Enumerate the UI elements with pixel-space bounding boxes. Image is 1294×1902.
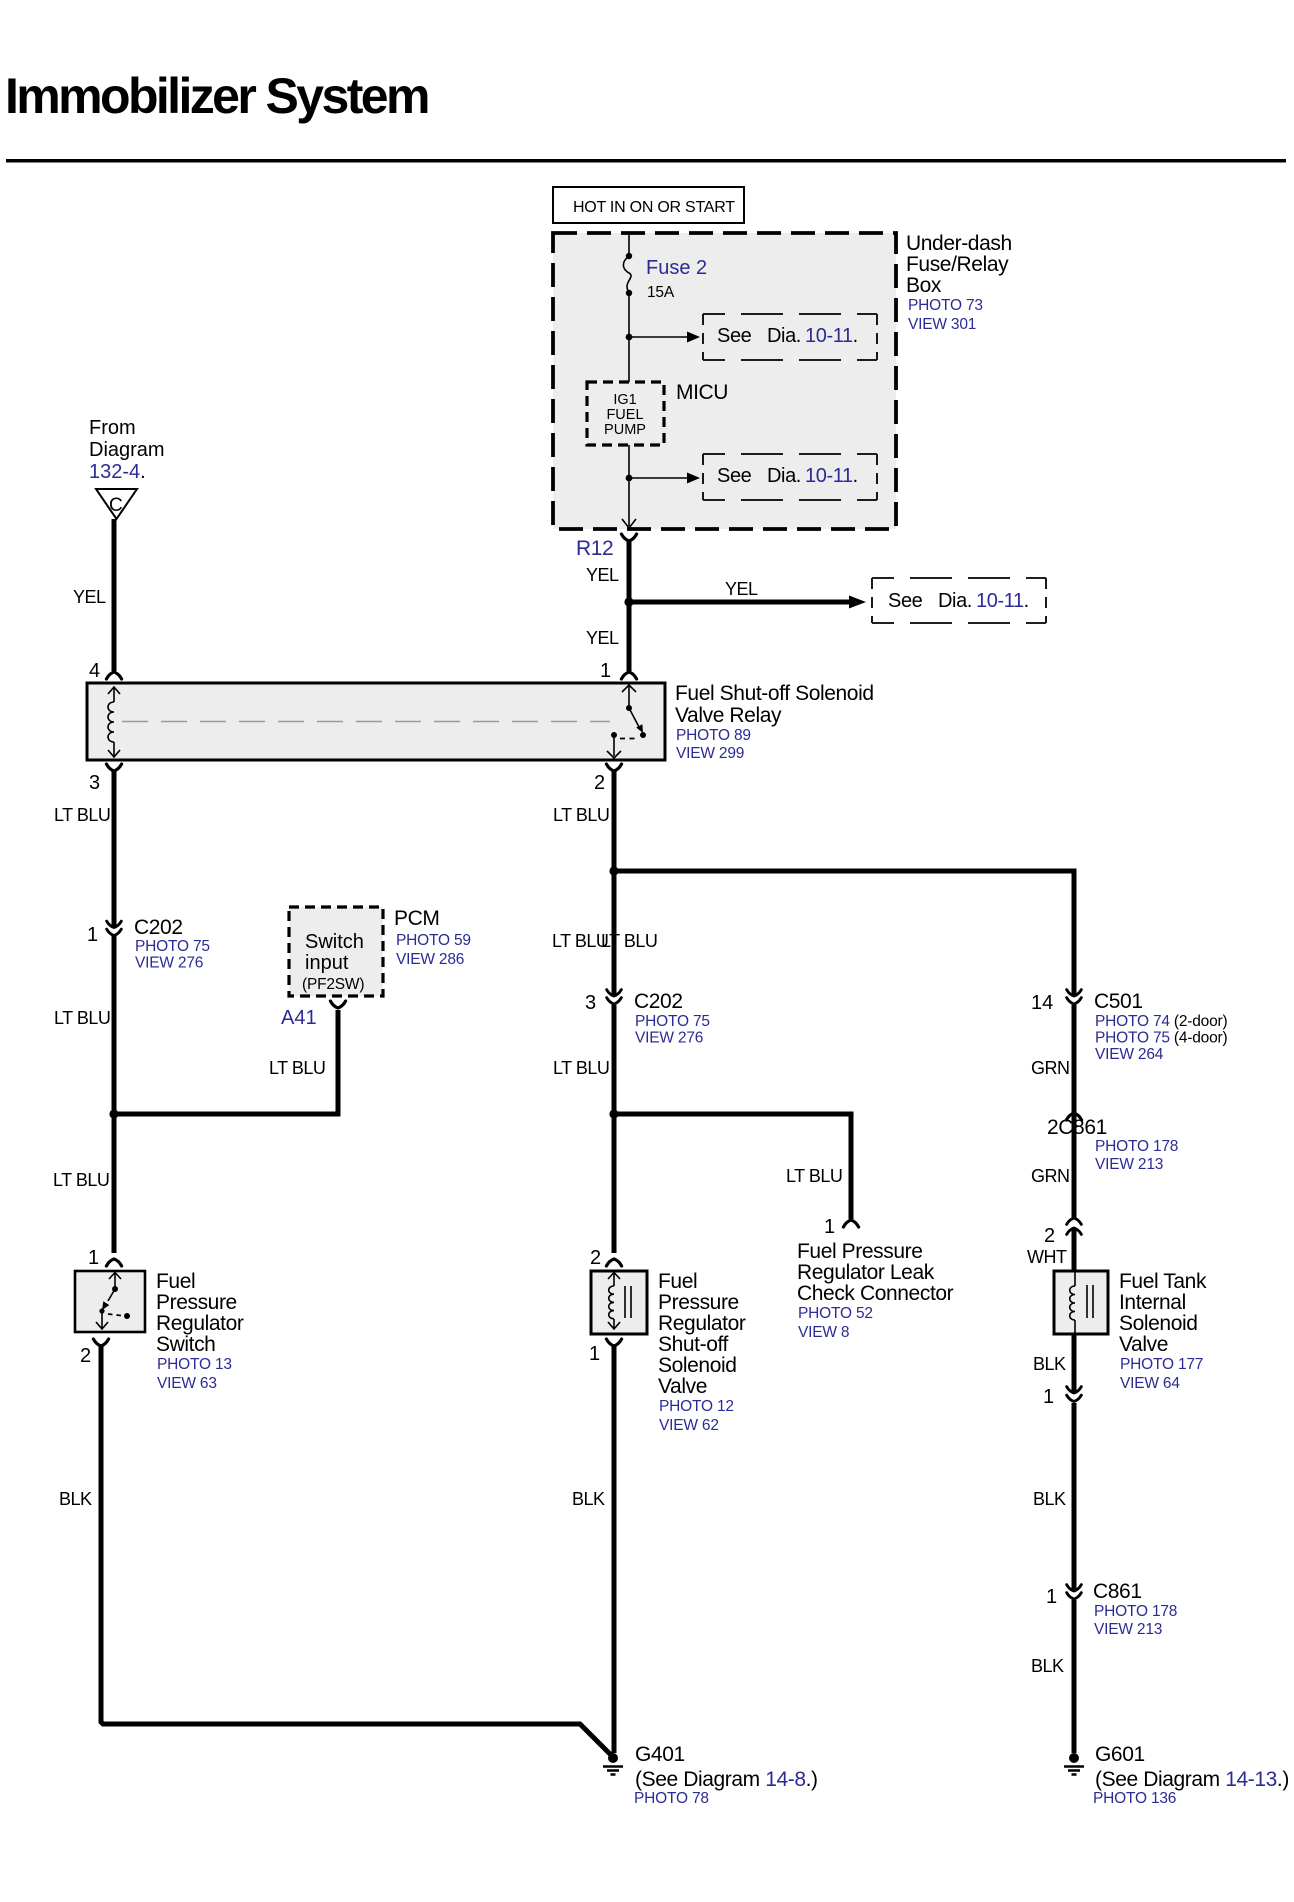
arrow to See Dia (upper) [629, 332, 700, 343]
svg-text:G401: G401 [635, 1743, 685, 1766]
svg-text:VIEW 276: VIEW 276 [635, 1030, 703, 1047]
svg-text:2: 2 [80, 1345, 91, 1367]
relay pin 4 terminal [106, 672, 121, 679]
svg-text:15A: 15A [647, 284, 675, 301]
svg-text:Fuel Pressure: Fuel Pressure [797, 1240, 923, 1263]
svg-text:Shut-off: Shut-off [658, 1333, 729, 1356]
svg-text:2: 2 [594, 772, 605, 794]
svg-text:Fuel: Fuel [658, 1270, 697, 1293]
svg-text:1: 1 [1043, 1386, 1054, 1408]
ground G401 [603, 1753, 623, 1775]
wire relay pin3 to C202 [112, 771, 117, 926]
svg-text:14: 14 [1031, 992, 1053, 1014]
svg-text:GRN: GRN [1031, 1058, 1070, 1078]
wire C501 to tank valve [1072, 1005, 1077, 1218]
connector C861 [1067, 1585, 1082, 1599]
svg-text:PHOTO 75 (4-door): PHOTO 75 (4-door) [1095, 1030, 1227, 1047]
svg-text:See: See [717, 465, 752, 487]
svg-text:BLK: BLK [59, 1489, 92, 1509]
relay coil [108, 687, 120, 757]
svg-text:Box: Box [906, 274, 942, 297]
svg-text:1: 1 [600, 660, 611, 682]
svg-text:IG1: IG1 [613, 392, 636, 408]
relay pin 3 terminal [106, 764, 121, 771]
svg-text:HOT IN ON OR START: HOT IN ON OR START [573, 199, 735, 216]
wire tank valve to pin1 connector [1072, 1334, 1077, 1392]
svg-text:PHOTO 178: PHOTO 178 [1095, 1138, 1178, 1155]
node junction middle [609, 1109, 618, 1118]
svg-text:Fuse/Relay: Fuse/Relay [906, 253, 1009, 276]
svg-text:(See Diagram 14-8.): (See Diagram 14-8.) [635, 1768, 818, 1791]
switch S1 contact [96, 1273, 130, 1330]
svg-text:PHOTO 59: PHOTO 59 [396, 932, 471, 949]
wire R12 to relay pin 1 [627, 541, 632, 671]
svg-text:G601: G601 [1095, 1743, 1145, 1766]
node junction to right column [609, 866, 618, 875]
svg-text:PHOTO 178: PHOTO 178 [1094, 1603, 1177, 1620]
label Under-dash Fuse/Relay Box [906, 232, 1012, 333]
svg-text:Internal: Internal [1119, 1291, 1186, 1314]
solenoid pin 2 terminal [606, 1259, 621, 1266]
wire junction to C501 column [614, 871, 1074, 995]
svg-text:YEL: YEL [725, 579, 758, 599]
svg-text:1: 1 [1046, 1586, 1057, 1608]
svg-text:Diagram: Diagram [89, 439, 165, 461]
svg-text:VIEW 301: VIEW 301 [908, 316, 976, 333]
svg-text:VIEW 299: VIEW 299 [676, 745, 744, 762]
tank valve coil element [1070, 1272, 1093, 1333]
svg-text:C: C [109, 495, 123, 516]
svg-text:LT BLU: LT BLU [553, 1058, 609, 1078]
svg-text:GRN: GRN [1031, 1166, 1070, 1186]
svg-text:Dia.: Dia. [767, 465, 801, 487]
svg-text:input: input [305, 952, 349, 974]
svg-text:C202: C202 [134, 916, 183, 939]
svg-text:VIEW 62: VIEW 62 [659, 1417, 719, 1434]
svg-text:YEL: YEL [586, 565, 619, 585]
svg-text:WHT: WHT [1027, 1247, 1067, 1267]
connector 2C861 chevron [1066, 1113, 1081, 1120]
svg-text:C202: C202 [634, 990, 683, 1013]
wire C861 to ground [1072, 1600, 1077, 1753]
svg-text:FUEL: FUEL [606, 407, 643, 423]
wire relay pin2 down [612, 771, 617, 995]
label G601 [1093, 1743, 1289, 1807]
label Fuel Pressure Regulator Shut-off Solenoid Valve [658, 1270, 746, 1434]
svg-text:PHOTO 78: PHOTO 78 [634, 1790, 709, 1807]
svg-text:PHOTO 136: PHOTO 136 [1093, 1790, 1176, 1807]
svg-text:R12: R12 [576, 537, 613, 560]
label Fuel Tank Internal Solenoid Valve [1119, 1270, 1207, 1392]
label C861 [1093, 1580, 1177, 1638]
svg-text:PHOTO 74 (2-door): PHOTO 74 (2-door) [1095, 1013, 1227, 1030]
svg-text:C501: C501 [1094, 990, 1143, 1013]
wire fuse to node [628, 293, 630, 382]
svg-text:Solenoid: Solenoid [658, 1354, 737, 1377]
svg-text:Regulator Leak: Regulator Leak [797, 1261, 935, 1284]
switch pin 2 terminal [93, 1339, 108, 1346]
svg-text:PHOTO 177: PHOTO 177 [1120, 1356, 1203, 1373]
svg-text:Pressure: Pressure [156, 1291, 237, 1314]
wire solenoid to ground [612, 1346, 617, 1753]
svg-text:LT BLU: LT BLU [552, 931, 608, 951]
connector tank valve pin 1 [1067, 1387, 1082, 1402]
wire arrow to See Dia right [629, 596, 866, 609]
svg-text:3: 3 [89, 772, 100, 794]
svg-text:Switch: Switch [156, 1333, 215, 1356]
label HOT IN ON OR START [553, 187, 744, 223]
wire junction to leak check connector [614, 1114, 851, 1219]
arrow to See Dia (lower) [629, 473, 700, 484]
svg-text:Valve Relay: Valve Relay [675, 704, 782, 727]
svg-text:PCM: PCM [394, 907, 439, 930]
svg-text:PHOTO 13: PHOTO 13 [157, 1356, 232, 1373]
switch S1 Fuel Pressure Regulator Switch box [75, 1271, 145, 1332]
relay pin 2 terminal [606, 764, 621, 771]
wire C202 to switch [112, 936, 117, 1254]
svg-text:PHOTO 75: PHOTO 75 [635, 1013, 710, 1030]
svg-text:VIEW 286: VIEW 286 [396, 951, 464, 968]
label PCM [394, 907, 471, 968]
label C202 middle [634, 990, 710, 1047]
fuse F2 node dots [626, 253, 632, 259]
node junction 1 [626, 334, 633, 341]
ground G601 [1064, 1753, 1084, 1775]
svg-text:Fuel Shut-off Solenoid: Fuel Shut-off Solenoid [675, 682, 874, 705]
wire to box edge with arrow [622, 478, 636, 528]
svg-text:PHOTO 12: PHOTO 12 [659, 1398, 734, 1415]
connector R12 terminal [621, 534, 636, 541]
svg-text:Valve: Valve [1119, 1333, 1168, 1356]
svg-text:YEL: YEL [586, 628, 619, 648]
svg-text:BLK: BLK [1031, 1656, 1064, 1676]
PCM switch input box [289, 907, 383, 996]
wire into fuse [628, 234, 630, 256]
svg-text:Dia.: Dia. [938, 590, 972, 612]
svg-text:Switch: Switch [305, 931, 364, 953]
solenoid coil element [608, 1273, 631, 1330]
svg-text:1: 1 [88, 1247, 99, 1269]
node C triangle [96, 489, 137, 519]
svg-text:VIEW 264: VIEW 264 [1095, 1046, 1164, 1063]
fuse 2 element [623, 256, 631, 292]
solenoid pin 1 terminal [606, 1339, 621, 1346]
node junction YEL [624, 597, 633, 606]
svg-text:Dia.: Dia. [767, 325, 801, 347]
svg-text:VIEW 276: VIEW 276 [135, 955, 203, 972]
terminal A41 [330, 1001, 345, 1008]
svg-text:2: 2 [590, 1247, 601, 1269]
connector C501 [1067, 990, 1082, 1004]
title rule [6, 159, 1286, 163]
svg-text:BLK: BLK [1033, 1354, 1066, 1374]
connector tank valve pin 2 [1067, 1218, 1082, 1234]
label G401 [634, 1743, 818, 1807]
svg-text:3: 3 [585, 992, 596, 1014]
connector C202 (left) [107, 921, 122, 935]
svg-text:Under-dash: Under-dash [906, 232, 1012, 255]
svg-text:MICU: MICU [676, 381, 728, 404]
label LT BLU pair [552, 931, 657, 951]
wire switch pin 2 to ground run [101, 1346, 611, 1755]
svg-text:BLK: BLK [572, 1489, 605, 1509]
label From Diagram 132-4. [89, 417, 165, 483]
label C202 [134, 916, 210, 972]
svg-text:PHOTO 52: PHOTO 52 [798, 1305, 873, 1322]
svg-text:(See Diagram 14-13.): (See Diagram 14-13.) [1095, 1768, 1289, 1791]
wire to C861 [1072, 1403, 1077, 1590]
wire C to relay pin 4 [112, 519, 117, 671]
wire into tank valve [1072, 1229, 1077, 1272]
relay internal dashed link [122, 721, 610, 723]
svg-text:2C861: 2C861 [1047, 1116, 1107, 1139]
label C501 [1094, 990, 1227, 1063]
svg-text:VIEW 213: VIEW 213 [1095, 1156, 1163, 1173]
connector C202 (middle) [607, 990, 622, 1004]
svg-text:BLK: BLK [1033, 1489, 1066, 1509]
svg-text:132-4.: 132-4. [89, 461, 146, 483]
svg-text:Regulator: Regulator [658, 1312, 746, 1335]
label PHOTO 178 VIEW 213 [1095, 1138, 1178, 1173]
svg-text:(PF2SW): (PF2SW) [302, 976, 364, 993]
under-dash fuse/relay box [553, 233, 896, 529]
valve Fuel Tank Internal Solenoid Valve box [1054, 1271, 1108, 1334]
svg-text:Immobilizer System: Immobilizer System [5, 68, 428, 124]
svg-text:Pressure: Pressure [658, 1291, 739, 1314]
svg-text:1: 1 [589, 1343, 600, 1365]
svg-text:PHOTO 73: PHOTO 73 [908, 297, 983, 314]
svg-text:Valve: Valve [658, 1375, 707, 1398]
MICU relay box IG1 FUEL PUMP [587, 382, 664, 445]
svg-text:LT BLU: LT BLU [786, 1166, 842, 1186]
svg-text:Regulator: Regulator [156, 1312, 244, 1335]
label Fuel Pressure Regulator Switch [156, 1270, 244, 1392]
relay pin 1 terminal [621, 672, 636, 679]
terminal leak check connector [843, 1220, 858, 1227]
svg-text:VIEW 8: VIEW 8 [798, 1324, 849, 1341]
svg-text:PHOTO 75: PHOTO 75 [135, 938, 210, 955]
svg-text:LT BLU: LT BLU [53, 1170, 109, 1190]
svg-text:PUMP: PUMP [604, 422, 646, 438]
svg-text:1: 1 [87, 924, 98, 946]
svg-text:LT BLU: LT BLU [553, 805, 609, 825]
wire C202 to solenoid valve [612, 1005, 617, 1253]
See Dia. 10-11. box (right) [872, 578, 1046, 623]
svg-text:VIEW 63: VIEW 63 [157, 1375, 217, 1392]
svg-text:10-11.: 10-11. [976, 590, 1029, 612]
solenoid Fuel Pressure Regulator Shut-off Solenoid Valve box [591, 1271, 647, 1334]
svg-text:C861: C861 [1093, 1580, 1142, 1603]
svg-text:LT BLU: LT BLU [601, 931, 657, 951]
svg-text:Fuse 2: Fuse 2 [646, 257, 707, 279]
svg-text:2: 2 [1044, 1225, 1055, 1247]
svg-text:1: 1 [824, 1216, 835, 1238]
svg-text:See: See [888, 590, 923, 612]
svg-text:4: 4 [89, 660, 100, 682]
svg-text:VIEW 64: VIEW 64 [1120, 1375, 1180, 1392]
svg-text:10-11.: 10-11. [805, 325, 858, 347]
svg-text:PHOTO 89: PHOTO 89 [676, 727, 751, 744]
svg-text:From: From [89, 417, 136, 439]
See Dia. 10-11. box (lower) [703, 454, 877, 500]
See Dia. 10-11. box (upper) [703, 314, 877, 360]
label Fuel Shut-off Solenoid Valve Relay [675, 682, 874, 762]
node junction 2 [626, 475, 633, 482]
svg-text:See: See [717, 325, 752, 347]
relay K1 Fuel Shut-off Solenoid Valve Relay box [87, 683, 665, 760]
svg-text:LT BLU: LT BLU [54, 1008, 110, 1028]
svg-text:LT BLU: LT BLU [269, 1058, 325, 1078]
wire MICU to node [628, 445, 630, 478]
relay switch contact [607, 685, 646, 758]
svg-text:YEL: YEL [73, 587, 106, 607]
svg-text:A41: A41 [281, 1007, 317, 1029]
wire junction to PCM stub [114, 1010, 338, 1114]
svg-text:VIEW 213: VIEW 213 [1094, 1621, 1162, 1638]
svg-text:10-11.: 10-11. [805, 465, 858, 487]
switch pin 1 terminal [106, 1259, 121, 1266]
svg-text:LT BLU: LT BLU [54, 805, 110, 825]
svg-text:Solenoid: Solenoid [1119, 1312, 1198, 1335]
svg-text:Check Connector: Check Connector [797, 1282, 954, 1305]
label Fuel Pressure Regulator Leak Check Connector [797, 1240, 954, 1341]
svg-text:Fuel Tank: Fuel Tank [1119, 1270, 1207, 1293]
svg-text:Fuel: Fuel [156, 1270, 195, 1293]
node junction left [109, 1109, 118, 1118]
